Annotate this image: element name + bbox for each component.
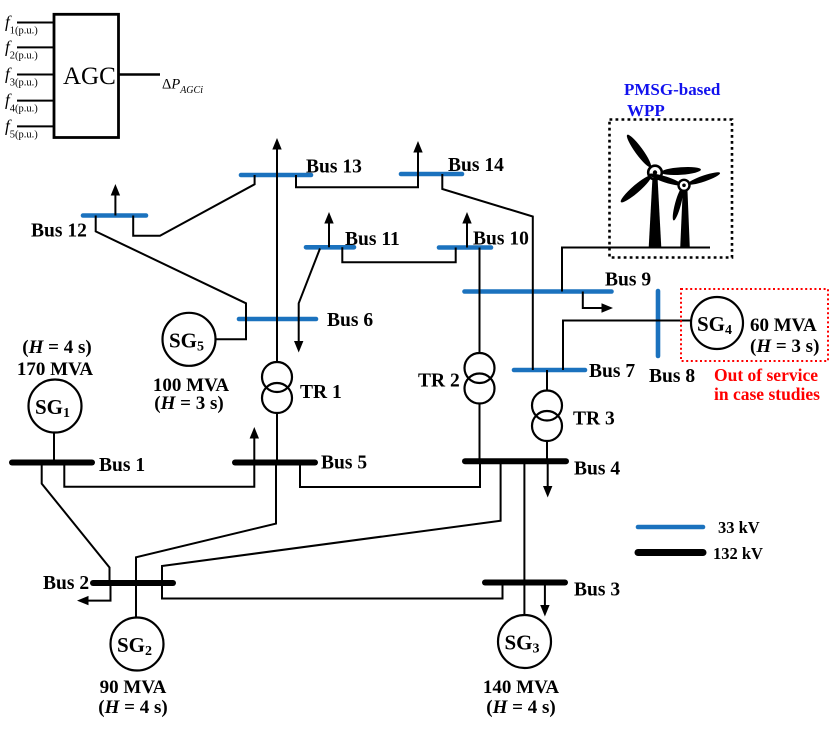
load arrow at bus 2 [88,583,111,601]
blade right large [661,166,701,176]
wire bus1 to bus2 [42,463,110,584]
svg-text:Bus 13: Bus 13 [306,157,362,178]
WPP dotted box [610,120,733,258]
tower large [649,179,662,248]
arrow at bus 13 [276,149,278,176]
svg-text:AGC: AGC [63,63,116,90]
blade right small [687,170,721,187]
svg-text:TR 3: TR 3 [573,409,615,430]
bus 7 (33kV) [514,368,585,373]
wire bus4 to bus3 [523,461,525,582]
wire SG5 lead [216,319,246,339]
svg-text:Bus 12: Bus 12 [31,221,87,242]
svg-text:(H = 4 s): (H = 4 s) [22,337,91,358]
bus 9 (33kV) [465,289,612,294]
generator SG3 [498,615,551,668]
AGC block U-AGC [54,14,119,137]
tower small [680,191,690,248]
arrow at bus 14 [417,152,419,175]
svg-text:60 MVA: 60 MVA [750,315,817,336]
wire TR3 to bus4 [546,441,548,461]
wire bus12 to bus6 [96,216,246,320]
svg-text:Bus 5: Bus 5 [321,453,367,474]
generator SG2 [111,618,164,671]
wire bus13 to bus14 [296,174,418,187]
wire TR1 to bus5 [276,413,278,463]
wire bus10 through bus9 to TR2 [479,248,481,354]
wire bus1 to bus5 [64,463,254,487]
wire bus7 to SG4 [563,321,691,371]
arrow at bus 11 [328,223,330,248]
svg-text:Bus 2: Bus 2 [43,573,89,594]
legend 33kV line [638,525,703,530]
svg-text:170 MVA: 170 MVA [17,359,93,380]
wire AGC output [119,73,161,75]
svg-text:in case studies: in case studies [714,384,820,404]
bus 6 (33kV) [239,317,316,322]
wire SG2 lead [135,583,137,618]
wire f5 input [17,125,54,127]
load arrow at bus 6 [298,319,300,342]
load arrow at bus 3 [544,583,546,607]
arrow at bus 10 [466,223,468,248]
wind turbine large [618,133,701,248]
wire bus5 to bus2 [136,463,276,584]
bus 5 (132kV) [235,460,315,466]
bus 4 (132kV) [465,458,566,464]
bus 14 (33kV) [401,172,462,177]
load arrow at bus 4 [547,461,549,487]
generator SG4 [691,297,743,349]
red dotted box out-of-service [681,289,828,361]
svg-text:Bus 7: Bus 7 [589,361,635,382]
svg-text:Bus 9: Bus 9 [605,270,651,291]
svg-text:(H = 3 s): (H = 3 s) [154,393,223,414]
wire bus4 to bus2 [162,461,501,583]
svg-text:140 MVA: 140 MVA [483,677,559,698]
svg-text:WPP: WPP [627,101,665,120]
wind turbine small [648,170,721,248]
blade up-left large [624,133,654,170]
svg-text:Bus 10: Bus 10 [473,229,529,250]
svg-text:33 kV: 33 kV [718,518,760,537]
wire SG3 lead [523,583,525,616]
svg-text:TR 1: TR 1 [300,382,342,403]
wire SG1 lead [53,433,55,463]
legend 132kV line [638,549,703,556]
hub small [679,180,690,191]
wire bus10 to bus11 [342,247,455,262]
wire bus14 to bus7 through bus9 [442,174,533,370]
bus 10 (33kV) [439,245,491,250]
svg-text:PMSG-based: PMSG-based [624,80,721,99]
wire bus5 to bus4 [300,461,480,487]
arrow at bus 12 [114,195,116,216]
bus 13 (33kV) [241,173,311,178]
svg-text:Out of service: Out of service [714,365,818,385]
svg-text:(H = 4 s): (H = 4 s) [98,697,167,718]
svg-text:(H = 3 s): (H = 3 s) [750,336,819,357]
wire f1 input [17,22,54,24]
wire TR2 to bus4 [479,404,481,462]
svg-text:Bus 14: Bus 14 [448,155,504,176]
generator SG5 [163,313,216,366]
bus 11 (33kV) [306,245,354,250]
wire bus2 to bus3 [162,583,503,599]
svg-text:Bus 1: Bus 1 [99,455,145,476]
hub large [648,166,662,180]
blade down small [671,187,686,221]
transformer TR3 [532,391,562,421]
transformer TR2 [465,353,495,383]
svg-text:Bus 11: Bus 11 [345,229,400,250]
bus 8 (33kV vertical) [656,291,661,356]
wire bus7 to TR3 [546,370,548,391]
wire f3 input [17,74,54,76]
svg-text:Bus 3: Bus 3 [574,580,620,601]
wire bus11 to bus6 [299,249,320,320]
wire f4 input [17,100,54,102]
svg-text:(H = 4 s): (H = 4 s) [486,697,555,718]
wire f2 input [17,46,54,48]
bus 2 (132kV) [93,580,173,586]
transformer TR1 [262,362,292,392]
svg-text:TR 2: TR 2 [418,371,460,392]
svg-text:132 kV: 132 kV [713,544,763,563]
blade left small [648,171,682,187]
bus 12 (33kV) [83,213,146,218]
svg-text:Bus 4: Bus 4 [574,459,620,480]
wire bus13 to TR1 vertical [276,175,278,363]
arrow at bus 5 [253,438,255,463]
bus 3 (132kV) [485,580,565,586]
load arrow at bus 9 [583,292,603,309]
generator SG1 [29,380,82,433]
wire WPP to bus9 [562,248,710,292]
svg-text:Bus 8: Bus 8 [649,366,695,387]
blade down-left large [618,173,653,205]
wire bus12 to bus13 [133,175,254,236]
svg-text:90 MVA: 90 MVA [100,677,167,698]
bus 1 (132kV) [12,460,92,466]
svg-text:Bus 6: Bus 6 [327,310,373,331]
